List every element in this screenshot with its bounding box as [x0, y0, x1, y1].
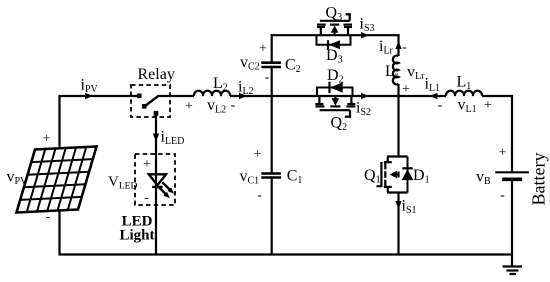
- diode D1 branch: [407, 157, 409, 193]
- arrow iPV: [85, 93, 93, 99]
- Q3 body arrow: [331, 25, 339, 33]
- capacitor C1: [261, 174, 281, 178]
- relay switch arm: [145, 96, 159, 106]
- wire top-left rail: [59, 95, 142, 97]
- wire Lr branch upper: [397, 34, 399, 56]
- capacitor C2: [261, 63, 281, 67]
- arrow iLED: [153, 134, 159, 142]
- diode D3 bar: [327, 40, 329, 49]
- diode D2 loop: [317, 88, 353, 97]
- arrow iL1: [430, 93, 438, 99]
- relay contact bottom: [154, 111, 159, 116]
- wire LED branch: [155, 113, 157, 255]
- wire left vertical: [58, 95, 60, 255]
- relay box: [131, 85, 170, 117]
- inductor Lr: [393, 56, 399, 85]
- svg-text:Relay: Relay: [138, 66, 175, 83]
- LED branch dashed box: [135, 154, 175, 205]
- svg-text:Battery: Battery: [529, 153, 549, 206]
- ground: [503, 267, 523, 275]
- wire Q1 to bottom bus: [397, 193, 399, 255]
- LED light ray 1: [158, 186, 167, 195]
- wire C branch upper: [271, 34, 273, 61]
- svg-text:+: +: [402, 82, 410, 97]
- Q1 body arrow: [389, 171, 397, 178]
- inductor L1: [446, 91, 482, 96]
- relay contact left: [137, 94, 142, 99]
- LED light ray 2: [162, 182, 170, 190]
- svg-text:Light: Light: [119, 228, 154, 244]
- wire rail L2 to L1: [230, 95, 446, 97]
- svg-text:+: +: [185, 99, 193, 114]
- wire battery branch lower: [511, 181, 513, 267]
- diode D1 bar: [402, 167, 412, 169]
- relay contact arm pivot: [142, 104, 147, 109]
- svg-text:+: +: [43, 132, 51, 147]
- wire rail L1 to battery: [482, 95, 513, 97]
- svg-text:-: -: [144, 191, 149, 206]
- wire battery branch upper: [511, 95, 513, 171]
- arrow iL2: [239, 93, 247, 99]
- svg-text:-: -: [257, 188, 262, 203]
- LED diode triangle: [149, 174, 166, 185]
- wire Lr to Q1: [397, 84, 399, 157]
- mosfet Q1: [377, 157, 408, 193]
- mosfet Q2: [315, 96, 355, 118]
- mosfet Q3: [317, 13, 352, 34]
- wire C branch lower: [271, 179, 273, 255]
- svg-text:-: -: [402, 40, 407, 55]
- battery plate long: [495, 171, 529, 173]
- diode D3 triangle: [329, 40, 340, 49]
- svg-text:-: -: [265, 70, 270, 85]
- diode D3 loop: [317, 35, 351, 45]
- diode D2 triangle: [330, 82, 343, 93]
- arrow iLr: [395, 41, 401, 49]
- wire bottom bus: [59, 253, 514, 255]
- battery plate short: [502, 178, 522, 182]
- svg-text:-: -: [438, 98, 443, 113]
- wire top rail: [271, 34, 400, 36]
- wire rail relay to L2: [158, 95, 195, 97]
- svg-text:-: -: [46, 210, 51, 225]
- LED cathode bar: [152, 186, 162, 188]
- diode D2 bar: [328, 82, 330, 94]
- svg-text:+: +: [143, 157, 151, 172]
- svg-text:+: +: [484, 98, 492, 113]
- svg-text:+: +: [254, 147, 262, 162]
- arrow iS1: [395, 201, 401, 209]
- svg-text:+: +: [259, 42, 267, 57]
- svg-text:+: +: [499, 146, 507, 161]
- arrow iS2: [361, 93, 369, 99]
- solar panel PV: [17, 147, 97, 213]
- arrow iS3: [361, 32, 369, 38]
- diode D1 triangle: [402, 169, 414, 180]
- wire C branch middle: [271, 68, 273, 172]
- svg-text:-: -: [231, 98, 236, 113]
- inductor L2: [194, 91, 230, 96]
- svg-text:-: -: [500, 188, 505, 203]
- Q2 body arrow: [332, 98, 340, 106]
